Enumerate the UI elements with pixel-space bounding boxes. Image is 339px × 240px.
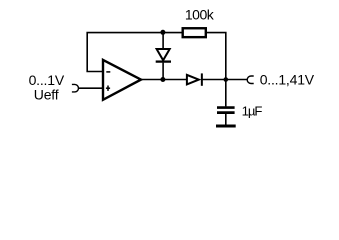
op-amp U1: [103, 60, 141, 100]
wire from input terminal to non-inverting input: [78, 87, 103, 89]
capacitor C1 1uF: [217, 108, 235, 113]
svg-text:0...1,41V: 0...1,41V: [260, 72, 315, 88]
svg-text:100k: 100k: [185, 7, 215, 23]
node: output junction: [224, 77, 229, 82]
wire from top net down to diode D1 anode: [162, 32, 164, 49]
resistor R1 100k: [183, 28, 206, 37]
svg-text:1µF: 1µF: [242, 103, 263, 118]
diode D1 (vertical, feedback): [156, 49, 171, 62]
wire from inverting input up and across to resistor: [87, 33, 181, 72]
svg-text:Ueff: Ueff: [34, 86, 59, 102]
wire from capacitor bottom plate to ground: [225, 114, 227, 125]
output terminal: [247, 76, 253, 84]
node: junction on output net at diode branch: [160, 77, 165, 82]
input terminal: [72, 84, 79, 92]
wire from op-amp output to diode D2 anode: [141, 79, 187, 81]
wire from output node down to capacitor: [225, 80, 227, 107]
diode D2 (horizontal, output): [187, 73, 202, 85]
node: junction on top net at diode branch: [160, 30, 165, 35]
ground: [216, 124, 236, 127]
wire from diode D2 cathode to output terminal: [202, 79, 248, 81]
wire from resistor right side to output node: [207, 33, 226, 80]
wire from diode D1 cathode down to output net: [162, 63, 164, 80]
